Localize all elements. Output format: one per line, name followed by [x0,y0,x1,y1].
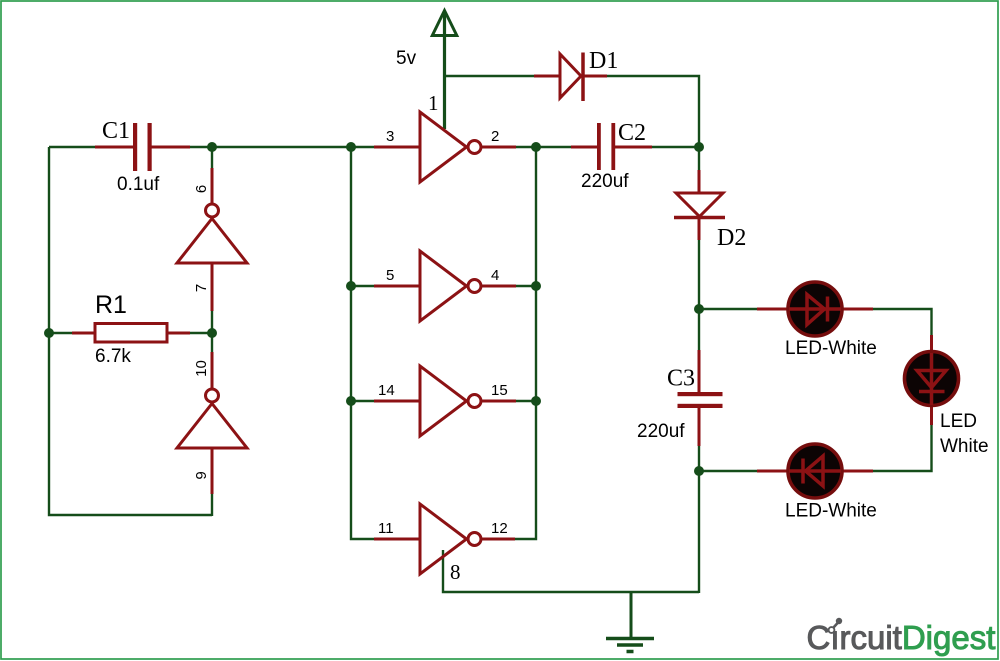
inverter gate 1 (pins 3-2) [374,91,516,182]
svg-text:1: 1 [428,91,439,115]
capacitor C2 [571,120,652,192]
svg-text:15: 15 [491,382,508,399]
wire node down to D2 [698,147,700,194]
ground [606,592,654,652]
inverter U2A (pins 6-7, pointing up) [177,204,247,263]
svg-text:12: 12 [491,520,508,537]
capacitor C3 [637,350,723,446]
wire gate3 input [351,400,420,402]
wire left rail with bottom return [49,147,212,515]
inverter U2B (pins 10-9, pointing up) [177,389,247,448]
wire pin9 down to bottom return [211,448,213,516]
resistor R1 [72,291,190,367]
svg-text:6.7k: 6.7k [95,346,131,367]
svg-text:C3: C3 [667,366,695,392]
wire gate2 output [482,285,536,287]
node A junction [207,142,217,152]
wire power stem [443,13,446,129]
inverter gate 3 (pins 14-15) [374,366,516,436]
wire gate4 gnd pin down to ground run [443,550,699,592]
wire C1 to node A [184,146,212,148]
diode D2 [674,170,746,251]
wire node to C2 [536,146,597,148]
svg-text:5: 5 [386,267,394,284]
5v power symbol [432,11,457,36]
wire power branch to D1 [445,75,561,78]
wire top-left to C1 [49,146,100,148]
svg-text:R1: R1 [95,291,127,319]
svg-text:8: 8 [450,560,461,584]
wire node A to gate 1 input [212,146,420,148]
node gate3 output [531,396,541,406]
wire C3 to bottom node [698,408,700,471]
svg-text:D1: D1 [589,48,618,74]
svg-text:11: 11 [378,520,394,537]
svg-text:5v: 5v [396,48,417,69]
svg-text:C2: C2 [618,120,646,146]
svg-text:10: 10 [193,360,210,377]
node gate3 input [346,396,356,406]
wire mid-left rail [351,147,420,539]
node mid-left rail top [346,142,356,152]
svg-text:LED: LED [940,411,977,432]
svg-text:White: White [940,436,989,457]
wire mid-right rail [482,147,536,539]
wire bottom node to LED3 [699,470,787,472]
pin 10 lead [211,352,214,389]
wire pin7 to R1 node [211,263,213,333]
wire LED1 to right branch corner and down [843,309,932,353]
svg-text:2: 2 [491,128,499,145]
svg-text:9: 9 [193,471,210,479]
LED D3 (LED-White, top) [757,282,877,359]
svg-text:7: 7 [193,284,210,292]
wire right branch down to LED3 row [843,405,932,471]
wire R1 left [49,332,95,334]
svg-text:14: 14 [378,382,395,399]
wire D2 to LED node [698,240,700,309]
svg-text:220uf: 220uf [637,421,685,442]
pin 6 lead [211,168,214,203]
inverter gate 4 (pins 11-12) [374,504,515,584]
wire D1 to right corner, down to C2 node [605,76,699,147]
node left rail / R1 junction [44,328,54,338]
CircuitDigest logo [807,618,996,656]
wire node A down to gate U2A [211,147,213,203]
node LED top row [694,304,704,314]
wire R1 right [167,332,212,334]
pin 9 lead [211,448,214,494]
svg-text:LED-White: LED-White [785,338,877,359]
svg-text:3: 3 [386,128,394,145]
svg-text:6: 6 [193,185,210,193]
svg-text:0.1uf: 0.1uf [117,174,160,195]
node gate1 output [531,142,541,152]
pin 7 lead [211,263,214,311]
svg-text:4: 4 [491,267,499,284]
wire gate1 output to node [482,146,536,148]
wire right rail bottom [698,471,700,593]
node C2 right / D2 top [694,142,704,152]
wire node down to gate U2B [211,333,213,389]
svg-text:C1: C1 [102,118,130,144]
svg-text:220uf: 220uf [581,171,629,192]
wire gate3 output [482,400,536,402]
svg-text:LED-White: LED-White [785,501,877,522]
LED D5 (LED-White, bottom) [757,444,877,522]
wire node down to C3 [698,309,700,392]
wire C2 to right rail [652,146,699,148]
capacitor C1 [95,118,190,195]
node gate2 input [346,281,356,291]
node R1 right junction [207,328,217,338]
wire gate2 input [351,285,420,287]
inverter gate 2 (pins 5-4) [374,251,516,321]
node LED bottom row [694,466,704,476]
wire node to LED1 [699,308,787,310]
node gate2 output [531,281,541,291]
diode D1 [534,48,618,101]
svg-text:D2: D2 [717,225,746,251]
LED D4 (LED White, right) [905,335,989,457]
